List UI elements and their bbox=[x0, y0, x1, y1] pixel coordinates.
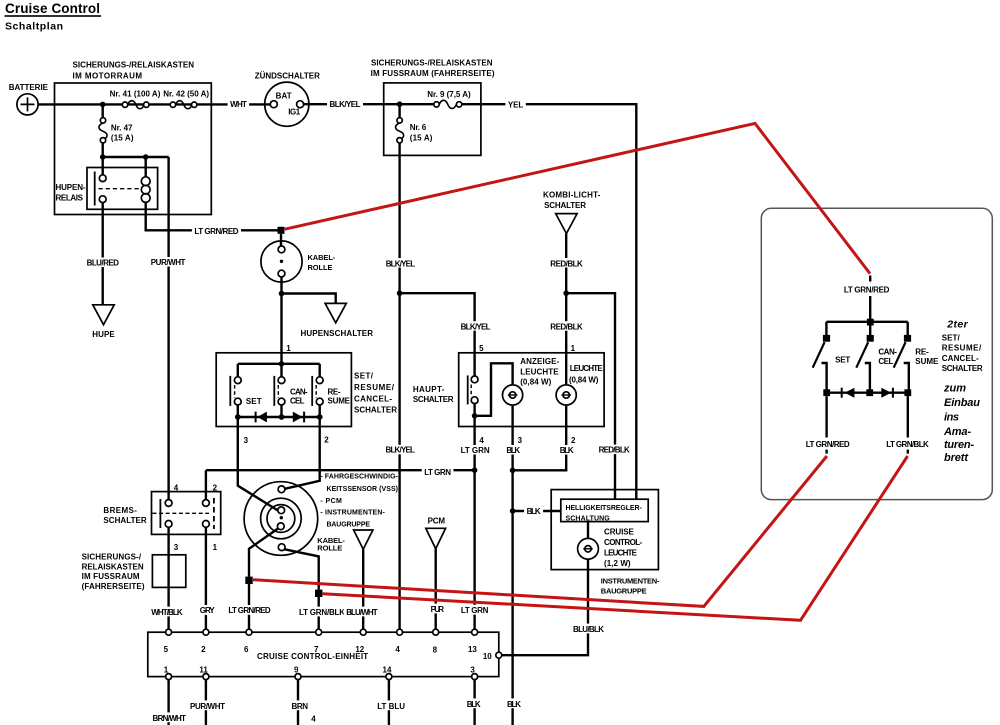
brake switch linkage dashed bbox=[153, 512, 210, 514]
svg-text:CANCEL-: CANCEL- bbox=[942, 354, 979, 363]
label LT GRN horizontal bbox=[422, 467, 454, 477]
svg-text:Nr. 47: Nr. 47 bbox=[111, 123, 133, 132]
svg-text:3: 3 bbox=[244, 436, 249, 445]
connector square bus feed bbox=[867, 319, 874, 326]
svg-text:KABEL-: KABEL- bbox=[308, 253, 336, 262]
set/resume/cancel switch box bbox=[216, 353, 351, 427]
junction node BLK branch to dimmer bbox=[510, 508, 516, 514]
junction node main switch out bbox=[472, 413, 478, 419]
wire square to cable reel top contact bbox=[280, 234, 282, 246]
wire bus to RESUME contact bbox=[319, 364, 321, 377]
label BLU/RED bbox=[84, 258, 121, 268]
wire feed to bus 2 bbox=[869, 276, 871, 320]
main switch box bbox=[459, 353, 604, 427]
ignition terminal IG1 bbox=[297, 101, 304, 108]
connector squares bottom bus bbox=[823, 389, 830, 396]
svg-text:BLK: BLK bbox=[560, 446, 574, 455]
wire WHT label bbox=[228, 99, 250, 110]
label BLK branch bbox=[524, 506, 543, 516]
svg-text:Nr. 6: Nr. 6 bbox=[410, 123, 427, 132]
svg-text:(0,84 W): (0,84 W) bbox=[520, 378, 551, 387]
svg-text:RESUME/: RESUME/ bbox=[942, 344, 982, 353]
cruise pin 4 bbox=[397, 629, 403, 635]
dimmer circuit box HELLIGKEITSREGLER-SCHALTUNG bbox=[561, 499, 648, 521]
wire BLK branch to dimmer circuit bbox=[513, 510, 561, 512]
svg-text:KEITSSENSOR (VSS): KEITSSENSOR (VSS) bbox=[327, 486, 399, 493]
horn switch triangle bbox=[325, 303, 346, 322]
svg-text:SICHERUNGS-/RELAISKASTEN: SICHERUNGS-/RELAISKASTEN bbox=[73, 60, 195, 69]
svg-text:LEUCHTE: LEUCHTE bbox=[520, 367, 559, 376]
wire relay bus horizontal bbox=[103, 156, 169, 158]
junction node relay coil feed bbox=[143, 154, 149, 160]
svg-text:WHT/BLK: WHT/BLK bbox=[151, 608, 183, 617]
wire PUR/WHT from relay bus down bbox=[167, 157, 169, 500]
label BRN bbox=[289, 700, 311, 710]
bus 2 bottom bbox=[827, 392, 908, 394]
svg-text:SCHALTER: SCHALTER bbox=[544, 201, 586, 210]
label BLK/YEL column lower bbox=[383, 445, 417, 455]
wire LT GRN horizontal brake to main switch bbox=[206, 469, 475, 471]
junction nodes bottom bus bbox=[235, 414, 241, 420]
wire branch to horn switch bbox=[282, 294, 336, 304]
cruise control lamp symbol bbox=[578, 538, 599, 559]
main switch contacts bbox=[471, 376, 478, 383]
wire cruise lamp BLU/BLK down to pin 10 bbox=[502, 559, 588, 655]
wire SET2 down to label bbox=[825, 396, 827, 437]
svg-text:SET/: SET/ bbox=[354, 372, 374, 381]
label WHT/BLK bbox=[149, 607, 186, 617]
svg-text:1: 1 bbox=[571, 344, 576, 353]
svg-text:RE-: RE- bbox=[328, 388, 341, 397]
svg-text:RED/BLK: RED/BLK bbox=[599, 445, 630, 454]
wire bus to SET contact bbox=[237, 364, 239, 377]
svg-text:RED/BLK: RED/BLK bbox=[550, 323, 583, 332]
main switch linkage dashed bbox=[470, 385, 472, 398]
svg-text:INSTRUMENTEN-: INSTRUMENTEN- bbox=[601, 577, 660, 586]
RESUME2 fixed contact bbox=[904, 363, 909, 393]
cruise pin 13 bbox=[472, 629, 478, 635]
diode D2 pointing right bbox=[293, 412, 303, 423]
horn relay box bbox=[87, 168, 158, 210]
wire main switch pin 4 down bbox=[473, 416, 475, 629]
svg-text:BLK: BLK bbox=[527, 507, 541, 516]
RESUME2 hinge square bbox=[904, 335, 911, 342]
svg-text:RESUME/: RESUME/ bbox=[354, 383, 395, 392]
diode D4 pointing right bbox=[881, 388, 891, 398]
SET2 lever bbox=[813, 342, 825, 368]
cruise pin 2 bbox=[203, 629, 209, 635]
wire fuse9 out to YEL corner bbox=[462, 104, 637, 499]
svg-text:2: 2 bbox=[571, 436, 576, 445]
svg-text:BLK/YEL: BLK/YEL bbox=[330, 100, 361, 109]
junction node bus feed bbox=[279, 361, 285, 367]
connector square LT GRN/RED to cable reel bbox=[278, 227, 285, 234]
fuse Nr.6 symbol bbox=[396, 123, 404, 140]
svg-text:HUPEN-: HUPEN- bbox=[56, 183, 86, 192]
svg-text:IM FUSSRAUM (FAHRERSEITE): IM FUSSRAUM (FAHRERSEITE) bbox=[371, 69, 495, 78]
svg-text:SET: SET bbox=[246, 397, 262, 406]
svg-text:4: 4 bbox=[311, 714, 316, 723]
brake switch right bar dashed bbox=[213, 498, 215, 529]
junction node BLK lamps bbox=[510, 468, 516, 474]
CANCEL switch bar bbox=[273, 376, 275, 406]
svg-text:BAUGRUPPE: BAUGRUPPE bbox=[327, 522, 371, 529]
cruise pin 5 bbox=[166, 629, 172, 635]
svg-text:SCHALTER: SCHALTER bbox=[413, 395, 454, 404]
cruise pin 7 bbox=[316, 629, 322, 635]
cruise bottom pin 9 bbox=[295, 674, 301, 680]
svg-text:1: 1 bbox=[213, 543, 218, 552]
wire lower contact to LT GRN/RED square bbox=[249, 528, 278, 576]
wire brake pin1 GRY down to cruise pin 2 bbox=[205, 527, 207, 629]
label BLU/BLK bbox=[571, 624, 607, 634]
svg-text:4: 4 bbox=[395, 645, 400, 654]
wire BLU/WHT down to cruise pin 12 bbox=[362, 549, 364, 629]
wire cable reel to horn switch node bbox=[280, 277, 282, 364]
svg-text:Nr. 42 (50 A): Nr. 42 (50 A) bbox=[163, 89, 209, 98]
svg-text:HELLIGKEITSREGLER-: HELLIGKEITSREGLER- bbox=[566, 505, 643, 512]
label PUR/WHT bbox=[188, 700, 228, 710]
label LT GRN pin4 bbox=[458, 445, 492, 455]
svg-text:SICHERUNGS-/RELAISKASTEN: SICHERUNGS-/RELAISKASTEN bbox=[371, 58, 493, 67]
svg-text:(0,84 W): (0,84 W) bbox=[569, 376, 599, 385]
svg-text:- INSTRUMENTEN-: - INSTRUMENTEN- bbox=[320, 509, 385, 516]
instrument cluster triangle BLU/WHT bbox=[354, 530, 373, 549]
SET switch bar bbox=[229, 376, 231, 406]
SET switch linkage dashed bbox=[234, 385, 236, 398]
switch bus bottom wires bbox=[238, 405, 320, 417]
main switch bar bbox=[467, 375, 469, 404]
svg-text:BATTERIE: BATTERIE bbox=[9, 83, 49, 92]
wire bottom contact to LT GRN/BLK square bbox=[285, 549, 319, 589]
wire stub LT BLU pin 14 bbox=[388, 680, 390, 725]
label PUR bbox=[428, 604, 446, 614]
junction node LT GRN bbox=[472, 467, 478, 473]
wire coil bottom to LT GRN/RED square bbox=[146, 202, 278, 230]
wire BLK/YEL fuse6 down to cruise unit pin 4 bbox=[398, 143, 400, 629]
wire stub BRN/WHT pin 1 bbox=[167, 680, 169, 725]
cruise pin 8 bbox=[433, 629, 439, 635]
svg-text:ANZEIGE-: ANZEIGE- bbox=[520, 357, 559, 366]
svg-text:ins: ins bbox=[944, 412, 959, 424]
svg-text:BLK/YEL: BLK/YEL bbox=[386, 446, 416, 455]
label LT BLU bbox=[375, 700, 408, 710]
wire square to cruise pin 6 bbox=[248, 584, 250, 629]
wire lamp2 pin 2 down bbox=[513, 406, 567, 470]
wire BLK/YEL branch to main switch pin 5 bbox=[400, 293, 475, 376]
SET2 hinge square bbox=[823, 335, 830, 342]
wire square to cruise pin 7 bbox=[318, 597, 320, 629]
svg-text:4: 4 bbox=[479, 436, 484, 445]
svg-text:- PCM: - PCM bbox=[320, 498, 342, 505]
label BRN/WHT bbox=[150, 712, 189, 722]
svg-text:13: 13 bbox=[468, 645, 477, 654]
svg-text:LT GRN/RED: LT GRN/RED bbox=[228, 606, 270, 615]
CANCEL2 lever bbox=[856, 342, 868, 368]
PCM triangle bbox=[426, 528, 446, 549]
brake switch contacts bbox=[165, 500, 172, 507]
svg-text:BRN: BRN bbox=[292, 702, 309, 711]
svg-text:LT GRN: LT GRN bbox=[461, 446, 490, 455]
cable reel 1 top contact bbox=[278, 246, 285, 253]
svg-text:(1,2 W): (1,2 W) bbox=[604, 559, 631, 568]
svg-text:BAT: BAT bbox=[276, 91, 292, 100]
svg-text:ROLLE: ROLLE bbox=[308, 263, 333, 272]
wire stub PUR/WHT pin 11 bbox=[205, 680, 207, 725]
svg-text:CANCEL-: CANCEL- bbox=[354, 394, 392, 403]
kombi light switch triangle bbox=[556, 214, 577, 234]
svg-text:LT GRN/RED: LT GRN/RED bbox=[844, 285, 890, 294]
wire bus to SET2 hinge bbox=[825, 322, 827, 335]
horn relay contact pins bbox=[99, 175, 106, 182]
svg-text:BRN/WHT: BRN/WHT bbox=[153, 714, 187, 723]
svg-text:CEL: CEL bbox=[290, 397, 305, 406]
svg-text:ZÜNDSCHALTER: ZÜNDSCHALTER bbox=[255, 72, 320, 81]
connector square LT GRN/BLK cruise bbox=[315, 590, 322, 597]
svg-text:5: 5 bbox=[479, 344, 484, 353]
wire indicator lamp pin 3 down bbox=[511, 406, 513, 725]
connector square LT GRN/RED cruise bbox=[245, 577, 252, 584]
svg-text:BLK/YEL: BLK/YEL bbox=[386, 259, 416, 268]
svg-text:12: 12 bbox=[355, 645, 364, 654]
wire battery to ignition switch bbox=[38, 103, 270, 105]
svg-text:HUPENSCHALTER: HUPENSCHALTER bbox=[301, 329, 374, 338]
label PUR/WHT bbox=[148, 257, 188, 267]
ignition terminal BAT bbox=[270, 101, 277, 108]
svg-text:PUR/WHT: PUR/WHT bbox=[151, 258, 186, 267]
svg-text:2ter: 2ter bbox=[946, 318, 968, 330]
svg-text:SCHALTER: SCHALTER bbox=[942, 364, 983, 373]
label RED/BLK dimmer feed bbox=[596, 445, 632, 455]
fuse/relay box footwell outline bbox=[384, 83, 481, 155]
svg-text:Schaltplan: Schaltplan bbox=[5, 21, 63, 33]
cable reel 1 bottom contact bbox=[278, 270, 285, 277]
label YEL bbox=[505, 99, 525, 110]
cruise control unit box bbox=[148, 632, 499, 676]
label BLK/YEL pin5 bbox=[458, 321, 493, 331]
svg-text:HUPE: HUPE bbox=[92, 330, 115, 339]
cruise bottom pin 3 bbox=[472, 674, 478, 680]
label BLK pin3 bbox=[504, 445, 523, 455]
svg-text:SCHALTUNG: SCHALTUNG bbox=[566, 515, 611, 522]
svg-text:CRUISE CONTROL-EINHEIT: CRUISE CONTROL-EINHEIT bbox=[257, 652, 368, 661]
horn relay linkage dashed bbox=[99, 188, 141, 190]
instrument cluster box bbox=[551, 490, 658, 570]
svg-text:8: 8 bbox=[433, 645, 438, 654]
cruise pin 6 bbox=[246, 629, 252, 635]
svg-text:Ama-: Ama- bbox=[943, 426, 971, 438]
svg-text:PCM: PCM bbox=[428, 516, 446, 525]
wire relay contact bottom BLU/RED down to horn bbox=[101, 202, 103, 304]
wire brake switch pin2 riser bbox=[205, 470, 207, 499]
wire brake pin3 WHT/BLK down to cruise pin 5 bbox=[167, 527, 169, 629]
svg-text:BLU/BLK: BLU/BLK bbox=[573, 625, 604, 634]
svg-text:LT GRN: LT GRN bbox=[424, 468, 451, 477]
cable reel 2 mid contact bbox=[278, 507, 285, 514]
svg-text:7: 7 bbox=[314, 645, 319, 654]
cable reel 2 top contact bbox=[278, 486, 285, 493]
svg-text:zum: zum bbox=[943, 382, 966, 394]
svg-text:BREMS-: BREMS- bbox=[103, 506, 137, 515]
label LT GRN/RED cruise bbox=[226, 605, 273, 615]
red link wire horn square to second switch feed bbox=[285, 123, 870, 273]
wire relay contact top bbox=[101, 157, 103, 175]
fuse Nr.41 symbol bbox=[128, 101, 145, 109]
cable reel 1 center dot bbox=[280, 260, 283, 263]
svg-text:CRUISE: CRUISE bbox=[604, 527, 634, 536]
brake switch box bbox=[152, 492, 221, 535]
bus 2 top bbox=[826, 321, 907, 323]
junction node horn switch branch bbox=[279, 291, 285, 297]
svg-text:(15 A): (15 A) bbox=[111, 133, 134, 142]
label BLK lamp bus bottom bbox=[505, 698, 524, 708]
svg-text:(15 A): (15 A) bbox=[410, 134, 433, 143]
wire RED/BLK kombi down bbox=[565, 234, 567, 384]
label LT GRN/BLK cruise bbox=[297, 607, 348, 617]
wire coil top bbox=[144, 157, 146, 177]
RESUME2 lever bbox=[894, 342, 906, 368]
svg-text:RELAISKASTEN: RELAISKASTEN bbox=[82, 562, 144, 571]
label BLK/YEL ignition out bbox=[327, 99, 363, 110]
label BLU/WHT bbox=[344, 607, 380, 617]
diode D3 pointing left bbox=[845, 388, 855, 398]
svg-text:LT BLU: LT BLU bbox=[377, 702, 405, 711]
svg-text:BLK: BLK bbox=[506, 446, 520, 455]
svg-text:14: 14 bbox=[383, 665, 392, 674]
black tick below label right bbox=[907, 450, 909, 454]
RESUME switch contacts bbox=[316, 377, 323, 384]
svg-text:KOMBI-LICHT-: KOMBI-LICHT- bbox=[543, 191, 601, 200]
cable reel 2 circles bbox=[244, 482, 318, 556]
svg-text:YEL: YEL bbox=[508, 100, 524, 109]
svg-text:IM MOTORRAUM: IM MOTORRAUM bbox=[73, 72, 143, 81]
wire PUR down to cruise pin 8 bbox=[435, 549, 437, 629]
label RED/BLK upper bbox=[548, 258, 586, 268]
svg-text:BLK: BLK bbox=[467, 700, 481, 709]
svg-text:CONTROL-: CONTROL- bbox=[604, 538, 643, 547]
lamp2 symbol bbox=[556, 385, 576, 405]
svg-text:Einbau: Einbau bbox=[944, 397, 980, 409]
label GRY bbox=[197, 605, 217, 615]
svg-text:IM FUSSRAUM: IM FUSSRAUM bbox=[82, 572, 140, 581]
wire IG1 to fuse box passenger side bbox=[304, 103, 434, 105]
wire pin2 RESUME down to cable reel 2 bbox=[285, 417, 320, 489]
label LT GRN/RED horn feed bbox=[192, 226, 241, 236]
svg-text:BLK/YEL: BLK/YEL bbox=[461, 323, 491, 332]
svg-text:LT GRN/BLK: LT GRN/BLK bbox=[886, 440, 929, 449]
svg-text:RE-: RE- bbox=[915, 347, 929, 356]
svg-text:LT GRN/BLK: LT GRN/BLK bbox=[299, 608, 345, 617]
svg-text:PUR: PUR bbox=[431, 605, 445, 614]
svg-text:WHT: WHT bbox=[230, 100, 247, 109]
cable reel 1 circle bbox=[261, 241, 302, 282]
svg-text:SUME: SUME bbox=[915, 357, 939, 366]
CANCEL2 hinge square bbox=[867, 335, 874, 342]
svg-text:LT GRN/RED: LT GRN/RED bbox=[194, 227, 238, 236]
svg-text:Cruise Control: Cruise Control bbox=[5, 1, 100, 16]
svg-text:BLK: BLK bbox=[507, 700, 521, 709]
cable reel 2 center dot bbox=[280, 516, 283, 519]
junction node BLK/YEL branch bbox=[397, 290, 403, 296]
svg-text:5: 5 bbox=[164, 645, 169, 654]
wire pin3 SET down to cable reel 2 bbox=[238, 417, 278, 511]
svg-text:- FAHRGESCHWINDIG-: - FAHRGESCHWINDIG- bbox=[320, 473, 398, 480]
label BLK/YEL column upper bbox=[383, 258, 417, 268]
label RED/BLK pin1 bbox=[548, 321, 586, 331]
CANCEL2 fixed contact bbox=[865, 363, 870, 393]
diode D1 pointing left bbox=[257, 412, 267, 423]
svg-text:HAUPT-: HAUPT- bbox=[413, 385, 445, 394]
svg-text:LT GRN: LT GRN bbox=[461, 606, 489, 615]
horn relay contact bar bbox=[94, 172, 96, 206]
fuse/relay box engine compartment outline bbox=[55, 83, 212, 215]
cruise pin 10 bbox=[496, 652, 502, 658]
fuse Nr.42 symbol bbox=[176, 101, 193, 109]
svg-text:SET/: SET/ bbox=[942, 333, 961, 342]
CANCEL switch linkage dashed bbox=[277, 385, 279, 398]
RESUME switch bar bbox=[311, 376, 313, 406]
svg-text:LT GRN/RED: LT GRN/RED bbox=[806, 440, 850, 449]
cruise pin 12 bbox=[360, 629, 366, 635]
wire L to indicator lamp bbox=[475, 363, 513, 416]
cruise bottom pin 11 bbox=[203, 674, 209, 680]
cable reel 2 lower contact bbox=[277, 523, 284, 530]
svg-text:turen-: turen- bbox=[944, 439, 974, 451]
wire bus to CANCEL contact bbox=[280, 364, 282, 377]
svg-text:SUME: SUME bbox=[328, 397, 351, 406]
svg-text:SET: SET bbox=[835, 355, 850, 364]
svg-text:CEL: CEL bbox=[878, 357, 893, 366]
wire main switch bottom to junction bbox=[473, 404, 475, 416]
svg-text:BAUGRUPPE: BAUGRUPPE bbox=[601, 586, 647, 595]
svg-text:ROLLE: ROLLE bbox=[317, 544, 342, 553]
wire RED/BLK branch to instrument dimmer bbox=[566, 293, 615, 499]
svg-text:(FAHRERSEITE): (FAHRERSEITE) bbox=[82, 582, 145, 591]
wire battery junction down to fuse 47 bbox=[101, 104, 103, 118]
label LT GRN lower bbox=[458, 605, 491, 615]
red link wire LT GRN/RED squares bbox=[253, 456, 827, 606]
label BLK pin2 bbox=[557, 445, 576, 455]
fuse Nr.9 symbol bbox=[439, 100, 456, 108]
indicator lamp symbol bbox=[502, 385, 522, 405]
svg-text:brett: brett bbox=[944, 452, 969, 464]
wire stub BRN pin 9 bbox=[297, 680, 299, 725]
svg-text:CAN-: CAN- bbox=[878, 347, 897, 356]
battery symbol bbox=[17, 94, 38, 115]
cruise bottom pin 14 bbox=[386, 674, 392, 680]
CANCEL switch contacts bbox=[278, 377, 285, 384]
svg-text:LEUCHTE: LEUCHTE bbox=[570, 364, 604, 373]
svg-text:RED/BLK: RED/BLK bbox=[550, 259, 583, 268]
horn symbol triangle HUPE bbox=[93, 305, 114, 325]
wire stub BLK pin 3 bbox=[473, 680, 475, 725]
svg-text:3: 3 bbox=[174, 543, 179, 552]
SET switch contacts bbox=[234, 377, 241, 384]
red link wire LT GRN/BLK squares bbox=[323, 456, 908, 620]
cable reel 2 bottom contact bbox=[278, 544, 285, 551]
switch bus top bbox=[238, 363, 320, 365]
svg-text:PUR/WHT: PUR/WHT bbox=[190, 702, 225, 711]
wire bus to RESUME2 hinge bbox=[907, 322, 909, 335]
svg-text:3: 3 bbox=[518, 436, 523, 445]
junction node fuse feed bbox=[100, 102, 106, 108]
svg-text:Nr. 41 (100 A): Nr. 41 (100 A) bbox=[110, 89, 161, 98]
label BLK pin3 bottom bbox=[464, 698, 483, 708]
wire dimmer to cruise control lamp bbox=[587, 522, 589, 539]
svg-text:6: 6 bbox=[244, 645, 249, 654]
junction node RED/BLK branch bbox=[563, 290, 569, 296]
svg-text:BLU/RED: BLU/RED bbox=[87, 259, 120, 268]
